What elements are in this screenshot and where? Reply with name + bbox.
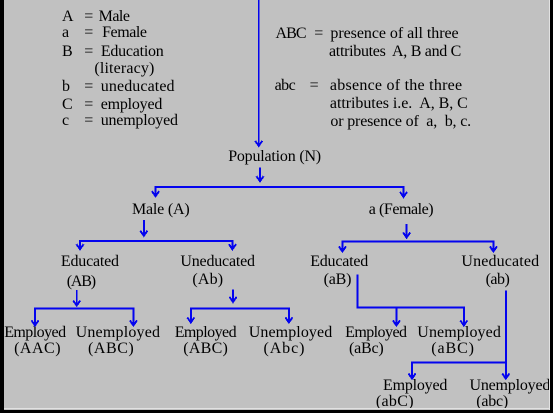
arrowhead to Unemployed (ABC) (130, 320, 137, 325)
wire: aB subtree middle drop (395, 307, 397, 324)
arrowhead above Population (255, 141, 262, 146)
node: Employed (ABC) (175, 324, 236, 342)
arrowhead to Unemployed (abc) (502, 374, 509, 379)
legend row 5: b = uneducated (62, 78, 70, 96)
wire: a (Female) down-stem (406, 224, 408, 237)
border right (550, 0, 553, 413)
arrowhead to Male (A) (152, 191, 159, 196)
node: Educated (AB) (61, 253, 119, 271)
wire: (AB) down-stem (76, 290, 78, 304)
legend row 6: C = employed (62, 96, 72, 114)
wire: Male (A) down-stem (143, 220, 145, 235)
node: Uneducated (ab) (461, 253, 539, 271)
arrowhead to Employed (AAC) (32, 320, 39, 325)
wire: aB subtree elbow rail with right end drop (357, 274, 463, 324)
node: a (Female) (369, 201, 433, 219)
arrowhead below (Ab) (230, 297, 237, 302)
arrowhead to Employed (abC) (409, 374, 416, 379)
arrowhead to Unemployed (Abc) (285, 317, 292, 322)
legend row 7: c = unemployed (62, 112, 69, 130)
node: Employed (AAC) (4, 324, 65, 342)
wire: Population down-stem (259, 168, 261, 181)
wire: Male subtree rail with end drops (80, 241, 232, 248)
wire: stem from top edge into Population (258, 0, 260, 145)
legend right row 2: attributes A, B and C (329, 43, 461, 61)
wire: Female subtree rail with end drops (342, 241, 493, 250)
arrowhead to Employed (aBc) (393, 320, 400, 325)
node: Unemployed (abc) (470, 377, 551, 395)
node: Uneducated (Ab) (180, 253, 254, 271)
arrowhead to Uneducated (Ab) (229, 244, 236, 249)
wire: Ab subtree rail with end drops (191, 309, 289, 322)
node: Male (A) (132, 201, 190, 219)
arrowhead to Unemployed (aBC) (460, 320, 467, 325)
node: Unemployed (Abc) (249, 324, 333, 342)
legend right row 4: attributes i.e. A, B, C (330, 95, 468, 113)
arrowhead below Male (A) (140, 231, 147, 236)
legend right row 3: abc = absence of the three (275, 77, 296, 95)
wire: (ab) long down-stem (505, 291, 507, 378)
arrowhead below a (Female) (403, 233, 410, 238)
legend row 3: B = Education (62, 43, 72, 61)
arrowhead to Employed (ABC) (187, 317, 194, 322)
arrowhead to a (Female) (400, 192, 407, 197)
legend right row 5: or presence of a, b, c. (330, 113, 471, 131)
legend row 4: (literacy) (94, 60, 154, 78)
arrowhead to Uneducated (ab) (490, 246, 497, 251)
wire: (Ab) down-stem (232, 290, 234, 301)
node: Educated (aB) (310, 253, 368, 271)
legend row 1: A = Male (62, 8, 73, 26)
node: Unemployed (aBC) (417, 324, 501, 342)
wire: level-1 branch rail with end drops (156, 187, 404, 196)
arrowhead below (AB) (73, 301, 80, 306)
border left (0, 0, 4, 413)
bevel highlight right (549, 0, 550, 413)
node: Employed (aBc) (345, 324, 406, 342)
arrowhead to Educated (aB) (339, 246, 346, 251)
wire: AB subtree rail with end drops (35, 309, 133, 325)
legend row 2: a = Female (62, 24, 69, 42)
border bottom (0, 410, 553, 413)
arrowhead to Educated (AB) (77, 244, 84, 249)
node: Population (N) (228, 148, 321, 166)
arrowhead below Population (257, 176, 264, 181)
legend right row 1: ABC = presence of all three (276, 25, 306, 43)
wire: ab subtree elbow rail with left drop (412, 362, 506, 377)
node: Employed (abC) (383, 377, 447, 395)
node: Unemployed (ABC) (76, 324, 161, 342)
bevel highlight bottom (4, 408, 553, 409)
